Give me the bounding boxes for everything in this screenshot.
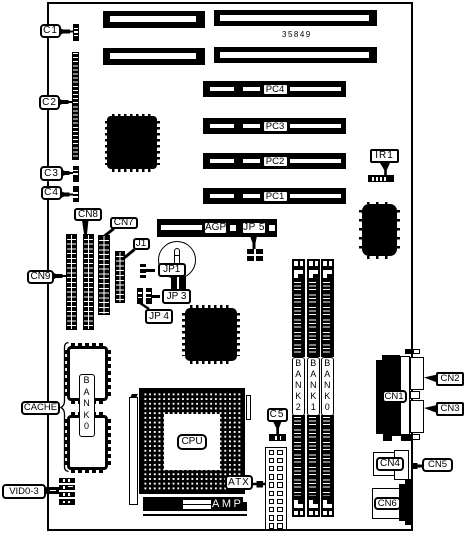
part number 35849 (282, 30, 322, 39)
CPU label (177, 434, 207, 450)
callout CN8 (74, 208, 102, 221)
DIMM socket BANK2 (292, 259, 306, 269)
PCI slot PC1 (203, 188, 346, 204)
DIMM socket BANK0 (321, 259, 335, 269)
wire CN7 tail (105, 229, 115, 237)
crystal component (174, 248, 180, 265)
AGP label (203, 221, 228, 235)
cache BANK0 label (79, 374, 95, 437)
wire line under AMP (143, 514, 247, 516)
wire CN3 pointer (424, 405, 437, 413)
PCI slot PC4 (203, 81, 346, 97)
chip U-top (QFP near C2) (105, 114, 160, 172)
brace cache bracket (61, 343, 69, 472)
callout C4 (41, 186, 62, 200)
connector CN1 top mount (405, 349, 413, 355)
wire C4 pointer (61, 191, 70, 198)
CPU socket pin grid (143, 392, 242, 491)
wire C3 pointer (62, 170, 70, 177)
DIMM BANK0 label (321, 357, 334, 416)
power connector ATX (265, 447, 287, 530)
chip U-right (PLCC right side) (359, 202, 400, 259)
jumper JP5 component (cross block) (247, 249, 263, 261)
wire VIDO-3 pointer (46, 487, 59, 494)
connector C4 component (73, 186, 80, 202)
crystal circle around JP1 (158, 241, 196, 279)
jumper JP1 label (158, 263, 187, 277)
CPU retention hook top-left (130, 394, 138, 398)
wire CN9 pointer (53, 273, 63, 280)
header strip CN7 target (98, 235, 110, 315)
CPU socket center cavity (164, 414, 220, 470)
ISA slot row2 left segment (103, 48, 205, 65)
connector CN6 front box (372, 488, 400, 520)
callout CN5 (422, 458, 453, 472)
wire CN5 pointer (414, 465, 423, 468)
cache chip A (64, 343, 111, 404)
callout C1 (40, 24, 61, 38)
AGP slot bar (157, 219, 277, 237)
wire J1 tail (124, 250, 135, 259)
connector CN1 face strip (400, 356, 411, 436)
callout C3 (40, 166, 63, 181)
AGP slot inner stripe (161, 225, 202, 231)
connector CN6 label (374, 497, 401, 511)
connector CN1 label (382, 390, 407, 403)
connector C3 component (73, 166, 80, 182)
connector CN6 back body (399, 484, 412, 522)
connector CN1 mid tab (410, 391, 420, 399)
header strip CN8 target (83, 234, 94, 330)
callout IR1 (370, 149, 399, 163)
DIMM BANK2 label (292, 357, 305, 416)
callout J1 (133, 238, 150, 251)
port CN2 (upper external) (410, 357, 424, 390)
wire ATX pointer (252, 483, 266, 486)
wire C1 pointer (60, 28, 70, 35)
ISA slot row1 left segment (103, 11, 205, 28)
callout CN7 (110, 217, 139, 230)
jumper JP5 label (241, 221, 267, 235)
jumper JP3 label (162, 289, 191, 305)
cache chip B (64, 412, 111, 474)
PCI slot PC2 (203, 153, 346, 169)
jumper JP1 component (140, 264, 146, 278)
callout CN3 (436, 402, 464, 416)
connector CN1 main body (376, 360, 400, 434)
connector CN4 back plate (394, 450, 409, 480)
board outline (47, 2, 413, 531)
wire JP1-JP3 link bars (171, 276, 186, 289)
chip U-mid (QFP center) (182, 305, 240, 364)
port CN3 (lower external) (410, 400, 424, 433)
DIMM BANK1 label (307, 357, 320, 416)
wire CN2 pointer (424, 375, 437, 383)
callout C2 (39, 95, 60, 110)
connector AMP bar (143, 497, 247, 511)
callout VIDO-3 (2, 484, 46, 499)
wire IR1 tail (380, 163, 390, 175)
wire JP3 pointer (152, 295, 160, 298)
wire C2 pointer (59, 99, 69, 106)
connector C2 component (ladder) (72, 52, 80, 160)
callout CN2 (436, 372, 464, 386)
capacitor C5 component (269, 434, 286, 441)
wire CN8 tail (82, 220, 89, 234)
AGP small key white square (230, 225, 236, 231)
connector CN4 label (376, 457, 404, 472)
wire JP1 pointer (146, 269, 155, 272)
connector CN4 front box (373, 452, 395, 476)
connector VIDO-3 component rows (59, 478, 76, 483)
jumper JP4 label (145, 309, 173, 324)
callout CACHE (21, 401, 60, 415)
CPU retention bar left (129, 397, 138, 505)
ISA slot row1 right segment (214, 10, 377, 26)
jumper JP3 component pair (137, 288, 143, 304)
header strip CN9 target (66, 234, 77, 330)
callout ATX (225, 475, 253, 490)
connector C1 component (73, 24, 79, 41)
CPU socket body (139, 388, 245, 494)
connector CN1 bottom cap (383, 434, 412, 441)
PCI slot PC3 (203, 118, 346, 134)
wire JP5 tail (250, 236, 257, 249)
AGP small key white square right (269, 225, 275, 231)
wire C5 tail (273, 422, 282, 435)
callout C5 (267, 408, 288, 422)
power connector ATX pins (269, 450, 275, 456)
ISA slot row2 right segment (214, 47, 377, 63)
wire JP4 tail (140, 303, 149, 309)
header strip J1 target (115, 251, 125, 303)
DIMM socket BANK1 (307, 259, 321, 269)
CPU socket tab right (246, 395, 252, 420)
connector CN1 body step (382, 355, 400, 361)
connector IR1 component (368, 175, 394, 182)
callout CN9 (27, 270, 54, 284)
